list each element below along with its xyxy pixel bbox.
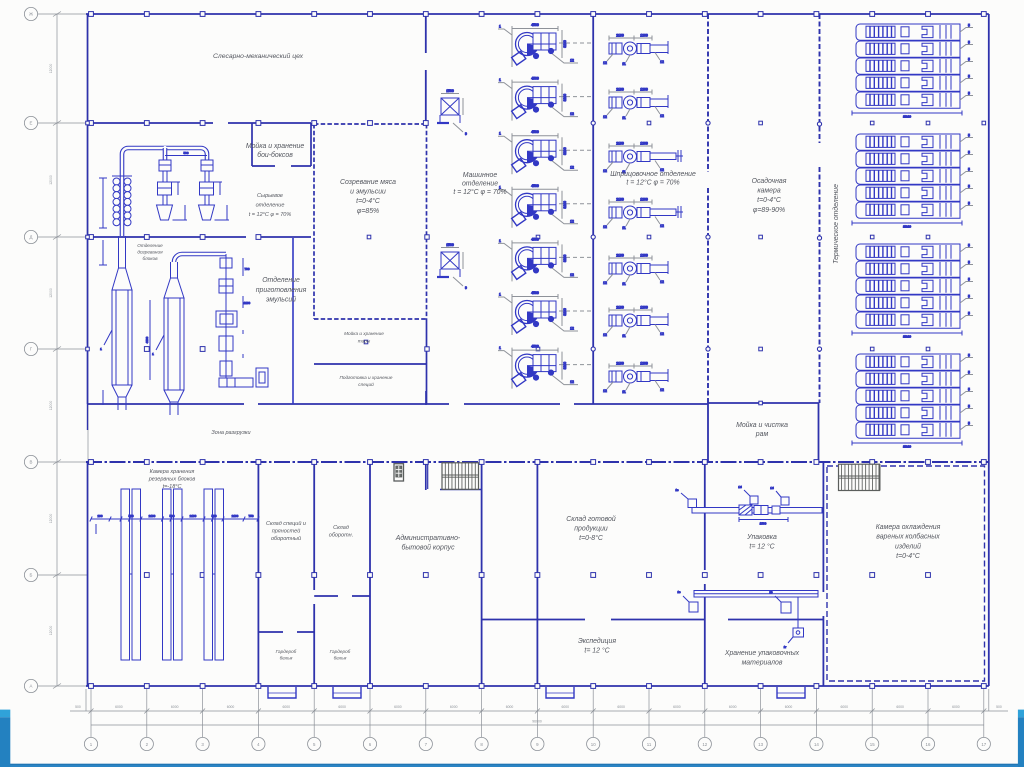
svg-text:1б: 1б (770, 486, 774, 490)
smoke chamber group 4 (852, 354, 973, 449)
svg-text:камера: камера (757, 188, 780, 195)
svg-text:14: 14 (814, 742, 819, 747)
svg-text:блоков: блоков (142, 256, 158, 261)
svg-text:15: 15 (870, 742, 875, 747)
svg-text:6000: 6000 (394, 705, 402, 709)
svg-text:6000: 6000 (115, 705, 123, 709)
svg-text:Зона разгрузки: Зона разгрузки (211, 430, 250, 436)
wall: drum store right x=370 (369, 462, 371, 686)
svg-text:t= 12 °C: t= 12 °C (584, 646, 610, 654)
svg-text:2100: 2100 (149, 514, 156, 518)
svg-text:1500: 1500 (446, 243, 454, 247)
svg-text:вареных колбасных: вареных колбасных (876, 533, 940, 541)
wall: door jamb stub above south wall (425, 391, 427, 405)
room label: stuffing section (610, 170, 696, 187)
svg-text:1в: 1в (675, 488, 679, 492)
dim over hopper machines (165, 155, 207, 157)
overhead pipe run, raw section (122, 148, 207, 236)
svg-text:6000: 6000 (785, 705, 793, 709)
svg-text:12000: 12000 (49, 626, 53, 636)
wall: lower building bottom outer (86, 685, 989, 687)
svg-text:200: 200 (97, 514, 102, 518)
room label: expedition (578, 637, 616, 654)
svg-text:12: 12 (570, 166, 574, 170)
svg-text:специй: специй (358, 381, 374, 387)
svg-text:Административно-: Административно- (395, 534, 461, 542)
svg-text:5: 5 (968, 202, 970, 206)
svg-text:4500: 4500 (531, 23, 539, 27)
packing conveyor line (675, 485, 822, 526)
wall: sediment/thermal dash-dot partition x=820 (819, 14, 821, 143)
cutter machine 1 (498, 23, 592, 67)
svg-text:6000: 6000 (952, 705, 960, 709)
svg-text:1300: 1300 (640, 198, 648, 202)
room label: mechanical shop (213, 52, 304, 60)
room label: admin building (395, 534, 461, 552)
svg-text:бытовой корпус: бытовой корпус (401, 544, 455, 552)
wall: cooling chamber left x=823 (822, 462, 824, 592)
svg-text:Отделение: Отделение (262, 276, 300, 284)
wall: expedition top y=619 (482, 619, 585, 621)
svg-text:5: 5 (968, 244, 970, 248)
svg-text:Мойка и чистка: Мойка и чистка (736, 421, 788, 429)
svg-text:3200: 3200 (563, 147, 567, 155)
wall: axis7 lower segment (tara/spice right) (426, 319, 428, 404)
svg-text:4500: 4500 (531, 184, 539, 188)
cutter machine 3 (498, 130, 592, 174)
svg-text:Гардероб: Гардероб (330, 649, 351, 654)
filler machine 4 (603, 198, 683, 231)
cutter machine 6 (498, 291, 592, 335)
cutter machine 4 (498, 184, 592, 228)
goods elevator (gray) (394, 464, 404, 481)
svg-text:6000: 6000 (450, 705, 458, 709)
packing table line (694, 591, 818, 598)
room label: spice prep (340, 375, 393, 387)
svg-text:5: 5 (968, 422, 970, 426)
slide chrome: left corner block (0, 710, 10, 767)
svg-text:6000: 6000 (283, 705, 291, 709)
room label: wardrobe 1 (276, 649, 297, 660)
filler machine 7 (603, 362, 668, 395)
wall: box wash room vertical (251, 123, 253, 166)
svg-text:12: 12 (660, 332, 664, 336)
wall: y=632 left wardrobe (258, 631, 283, 633)
svg-text:белья: белья (334, 655, 347, 660)
cutter machine 5 (498, 237, 592, 281)
outer and partition walls (blue) (86, 14, 989, 686)
svg-text:2100: 2100 (616, 142, 624, 146)
svg-text:t = 12°C φ = 70%: t = 12°C φ = 70% (626, 179, 679, 187)
label: unloading zone (211, 430, 250, 436)
svg-text:750: 750 (248, 514, 253, 518)
svg-text:Е: Е (30, 121, 33, 126)
svg-text:Упаковка: Упаковка (746, 534, 777, 541)
svg-text:12: 12 (660, 60, 664, 64)
svg-text:2100: 2100 (616, 254, 624, 258)
svg-text:5: 5 (968, 168, 970, 172)
room label: sediment chamber (752, 177, 787, 214)
svg-text:16: 16 (926, 742, 931, 747)
svg-text:Гардероб: Гардероб (276, 649, 297, 654)
svg-text:5: 5 (968, 151, 970, 155)
svg-text:5: 5 (968, 312, 970, 316)
room label: emulsion preparation (256, 276, 307, 304)
svg-text:дозревания: дозревания (137, 250, 163, 255)
room label: cooling chamber (876, 523, 941, 560)
svg-text:материалов: материалов (742, 659, 783, 666)
smoke chamber group 2 (852, 134, 973, 229)
svg-text:6000: 6000 (506, 705, 514, 709)
wall: finished goods right x=705 (704, 462, 706, 570)
room label: thermal section (vertical) (832, 184, 840, 264)
wall: stairwell west thin side (427, 462, 429, 489)
room label: finished goods store (566, 515, 616, 542)
svg-text:продукции: продукции (574, 524, 608, 532)
room label: frame wash (736, 421, 788, 438)
svg-text:оборотный: оборотный (271, 535, 301, 542)
wall: axis7 top segment (425, 14, 427, 53)
svg-text:500: 500 (75, 705, 81, 709)
svg-text:4500: 4500 (531, 237, 539, 241)
svg-text:500: 500 (128, 514, 133, 518)
wrapper machine 2 with drop pipe (769, 590, 803, 649)
meat ripening chamber dashed walls (313, 124, 315, 319)
svg-text:1300: 1300 (640, 254, 648, 258)
svg-text:приготовления: приготовления (256, 287, 307, 294)
svg-text:3200: 3200 (563, 40, 567, 48)
svg-text:500: 500 (211, 514, 216, 518)
hopper machine 1 (157, 160, 188, 220)
slide chrome: bottom blue bar (0, 764, 1024, 767)
svg-text:2100: 2100 (232, 514, 239, 518)
defrost tower 2 (145, 262, 184, 415)
svg-text:2100: 2100 (616, 88, 624, 92)
svg-text:Термическое отделение: Термическое отделение (832, 184, 840, 264)
svg-text:11310: 11310 (903, 115, 911, 119)
svg-text:Д: Д (30, 235, 33, 240)
wall: upper building bottom row (88, 403, 245, 405)
room label: packaging material store (724, 650, 800, 666)
filler machine 1 (603, 34, 668, 67)
svg-text:тары: тары (358, 338, 371, 343)
svg-text:Мойка и хранение: Мойка и хранение (246, 142, 305, 150)
svg-text:6000: 6000 (562, 705, 570, 709)
svg-text:эмульсий: эмульсий (266, 296, 296, 304)
svg-text:t = 12°C φ = 70%: t = 12°C φ = 70% (249, 212, 292, 218)
svg-text:10: 10 (591, 742, 596, 747)
svg-text:11: 11 (647, 742, 652, 747)
svg-text:2100: 2100 (190, 514, 197, 518)
svg-text:2100: 2100 (616, 362, 624, 366)
filler machine 5 (603, 254, 668, 287)
svg-text:1в: 1в (677, 590, 681, 594)
bubbler rack of rollers (99, 176, 132, 228)
room label: wardrobe 2 (330, 649, 351, 660)
svg-text:t=0-4°C: t=0-4°C (757, 196, 782, 204)
svg-text:1500: 1500 (760, 522, 767, 526)
svg-text:11310: 11310 (903, 445, 911, 449)
svg-text:5: 5 (968, 24, 970, 28)
svg-text:2100: 2100 (616, 306, 624, 310)
wall: row D left part (88, 236, 247, 238)
svg-text:6000: 6000 (729, 705, 737, 709)
room label: reserve block chamber (148, 469, 196, 490)
wall: below stairs (440, 489, 482, 491)
svg-text:1100: 1100 (244, 301, 251, 305)
svg-text:Слесарно-механический цех: Слесарно-механический цех (213, 52, 304, 60)
svg-text:4500: 4500 (531, 345, 539, 349)
room label: machine room (453, 172, 506, 196)
svg-text:12: 12 (603, 281, 607, 285)
svg-text:500: 500 (169, 514, 174, 518)
storage rack 1 (121, 489, 141, 660)
svg-text:5: 5 (968, 295, 970, 299)
svg-text:изделий: изделий (895, 542, 921, 550)
defrost tower 1 (99, 236, 132, 410)
svg-text:12: 12 (702, 742, 707, 747)
svg-text:6000: 6000 (841, 705, 849, 709)
svg-text:12000: 12000 (49, 64, 53, 74)
smoke chamber group 1 (852, 24, 973, 119)
svg-text:12: 12 (660, 114, 664, 118)
wall: right outer full height (988, 14, 990, 686)
svg-text:5: 5 (968, 92, 970, 96)
svg-text:12: 12 (603, 61, 607, 65)
svg-text:1300: 1300 (640, 362, 648, 366)
wall: frame wash room left (707, 403, 709, 462)
svg-text:12: 12 (603, 389, 607, 393)
svg-text:3200: 3200 (563, 201, 567, 209)
svg-text:Б: Б (30, 573, 33, 578)
pipe drop to hopper machine 1 (163, 148, 168, 160)
svg-text:Осадочная: Осадочная (752, 177, 787, 185)
svg-text:t = 12°C φ = 70%: t = 12°C φ = 70% (453, 188, 506, 196)
svg-text:оборотн.: оборотн. (329, 533, 353, 539)
svg-text:Подготовка и хранение: Подготовка и хранение (340, 375, 393, 380)
svg-text:9: 9 (465, 132, 467, 136)
svg-text:1: 1 (499, 346, 501, 350)
wall: left outer dock segment (87, 404, 89, 430)
wall: reserve-block chamber right x=258 (257, 462, 259, 686)
svg-text:12: 12 (603, 169, 607, 173)
svg-text:резервных блоков: резервных блоков (148, 477, 196, 483)
svg-text:1: 1 (499, 25, 501, 29)
svg-text:12000: 12000 (49, 288, 53, 298)
svg-text:t=0-8°C: t=0-8°C (579, 534, 604, 542)
svg-text:4500: 4500 (531, 291, 539, 295)
wall: vertical x=311 raw section right (310, 123, 312, 166)
svg-text:5: 5 (968, 41, 970, 45)
svg-text:12: 12 (660, 280, 664, 284)
svg-text:φ=89-90%: φ=89-90% (753, 207, 785, 214)
structural column markers (86, 12, 987, 689)
svg-text:12: 12 (660, 224, 664, 228)
svg-text:Машинное: Машинное (463, 172, 498, 179)
svg-text:Мойка и хранение: Мойка и хранение (344, 330, 384, 336)
svg-text:4500: 4500 (531, 77, 539, 81)
svg-text:отделение: отделение (256, 202, 285, 208)
svg-text:рам: рам (755, 431, 769, 438)
room label: spice store (266, 520, 306, 542)
svg-text:6000: 6000 (171, 705, 179, 709)
svg-text:6000: 6000 (896, 705, 904, 709)
staircase east (gray) (839, 464, 880, 490)
svg-text:11: 11 (622, 334, 626, 338)
svg-text:12: 12 (570, 327, 574, 331)
emulsion room side wall line (292, 238, 294, 404)
wall: lower building top row B (dash-dot) (86, 461, 989, 463)
room label: meat ripening (340, 179, 396, 215)
svg-text:1500: 1500 (446, 89, 454, 93)
svg-text:12: 12 (603, 115, 607, 119)
wall: lower building left outer (87, 462, 89, 686)
svg-text:1: 1 (499, 78, 501, 82)
filler machine 6 (603, 306, 668, 339)
svg-text:φ=85%: φ=85% (357, 208, 379, 215)
storage rack 3 (204, 489, 224, 660)
svg-text:500: 500 (183, 151, 188, 155)
svg-text:700: 700 (244, 267, 249, 271)
svg-text:t= 12 °C: t= 12 °C (749, 542, 775, 550)
rack dimension line (90, 514, 259, 534)
wall: frame wash room top (708, 402, 819, 404)
filler machine 2 (603, 88, 668, 121)
svg-text:12: 12 (603, 225, 607, 229)
svg-text:3200: 3200 (563, 308, 567, 316)
svg-text:11: 11 (622, 226, 626, 230)
wall: row E left part (88, 122, 214, 124)
svg-text:3200: 3200 (563, 94, 567, 102)
svg-text:пряностей: пряностей (272, 528, 301, 535)
svg-text:В: В (30, 460, 33, 465)
entrance porches on south wall (268, 687, 296, 698)
svg-text:2100: 2100 (616, 198, 624, 202)
svg-text:1300: 1300 (640, 142, 648, 146)
room label: tara wash (344, 330, 384, 343)
svg-text:5: 5 (968, 185, 970, 189)
svg-text:5: 5 (968, 371, 970, 375)
svg-text:5: 5 (968, 58, 970, 62)
svg-text:11: 11 (622, 390, 626, 394)
cutter machine 7 (498, 345, 592, 389)
filler machine 3 (603, 142, 683, 175)
wall: frame wash room right (818, 403, 820, 462)
svg-text:4800: 4800 (145, 336, 149, 343)
svg-text:5: 5 (968, 134, 970, 138)
svg-text:Камера охлаждения: Камера охлаждения (876, 523, 941, 531)
svg-text:12: 12 (570, 112, 574, 116)
svg-text:6000: 6000 (338, 705, 346, 709)
cutter machine 2 (498, 77, 592, 121)
svg-text:Камера хранения: Камера хранения (150, 469, 195, 475)
grinder 1 (437, 89, 467, 136)
svg-text:1: 1 (499, 132, 501, 136)
svg-text:17: 17 (981, 742, 986, 747)
storage rack 2 (163, 489, 183, 660)
svg-text:1: 1 (499, 239, 501, 243)
svg-text:Сырьевое: Сырьевое (257, 193, 283, 199)
svg-text:11: 11 (622, 282, 626, 286)
svg-text:5: 5 (968, 261, 970, 265)
svg-text:5: 5 (968, 354, 970, 358)
svg-text:Отделение: Отделение (137, 243, 163, 248)
svg-text:12000: 12000 (49, 401, 53, 411)
svg-text:5: 5 (968, 278, 970, 282)
room label: drum store (329, 525, 353, 539)
svg-text:6000: 6000 (673, 705, 681, 709)
svg-text:6000: 6000 (617, 705, 625, 709)
svg-text:бои-боксов: бои-боксов (257, 151, 293, 159)
svg-text:11310: 11310 (903, 335, 911, 339)
wall: row E over meat chamber (dashed) (314, 123, 427, 125)
svg-text:500: 500 (996, 705, 1002, 709)
smoke chamber group 3 (852, 244, 973, 339)
svg-text:9: 9 (465, 286, 467, 290)
svg-text:t=0-4°C: t=0-4°C (896, 552, 921, 560)
svg-text:белья: белья (280, 655, 293, 660)
svg-text:3200: 3200 (563, 362, 567, 370)
svg-text:12: 12 (570, 59, 574, 63)
staircase west (gray) (442, 463, 479, 490)
grinder 2 (437, 243, 467, 290)
svg-text:5: 5 (968, 75, 970, 79)
svg-text:2100: 2100 (616, 34, 624, 38)
svg-text:t=-18°C: t=-18°C (163, 484, 182, 490)
wall: stuffing/sediment dash-dot partition x=708 (707, 14, 709, 172)
svg-text:Ж: Ж (29, 12, 33, 17)
wall: axis10 machine room right (592, 14, 594, 404)
svg-text:96000: 96000 (532, 720, 542, 724)
svg-text:1г: 1г (784, 645, 787, 649)
svg-text:отделение: отделение (462, 180, 498, 188)
svg-text:5: 5 (968, 405, 970, 409)
room label: box wash (246, 142, 305, 159)
svg-text:Склад специй и: Склад специй и (266, 520, 306, 527)
svg-text:11: 11 (622, 116, 626, 120)
svg-text:1300: 1300 (640, 88, 648, 92)
emulsion preparation machine column (216, 254, 268, 387)
wrapper machine 1 (677, 590, 698, 612)
svg-text:12: 12 (603, 333, 607, 337)
svg-text:12: 12 (570, 380, 574, 384)
cooling chamber inner dashed insulation (827, 466, 985, 681)
svg-text:t=0-4°C: t=0-4°C (356, 197, 381, 205)
svg-text:Экспедиция: Экспедиция (578, 637, 616, 645)
svg-text:Созревание мяса: Созревание мяса (340, 179, 396, 186)
hopper machine 2 (199, 160, 230, 220)
svg-text:Хранение упаковочных: Хранение упаковочных (724, 650, 800, 657)
svg-text:12000: 12000 (49, 175, 53, 185)
wall: tara room bottom (314, 363, 427, 365)
svg-text:4500: 4500 (531, 130, 539, 134)
svg-text:5: 5 (968, 388, 970, 392)
wall: wardrobe rooms y=596 (314, 595, 338, 597)
svg-text:6000: 6000 (227, 705, 235, 709)
room label: block ripening (137, 243, 163, 261)
svg-text:Склад: Склад (333, 525, 349, 531)
wall: admin left x=482 (481, 462, 483, 686)
svg-text:12: 12 (570, 273, 574, 277)
svg-text:Склад готовой: Склад готовой (566, 515, 616, 523)
svg-text:13: 13 (758, 742, 763, 747)
slide chrome: right edge strip (1018, 710, 1024, 767)
svg-text:1300: 1300 (640, 34, 648, 38)
wall: axis9 x=537 (536, 462, 538, 686)
emulsion line elbow pipe (174, 254, 226, 262)
svg-text:12000: 12000 (49, 514, 53, 524)
room label: packing (746, 534, 777, 550)
